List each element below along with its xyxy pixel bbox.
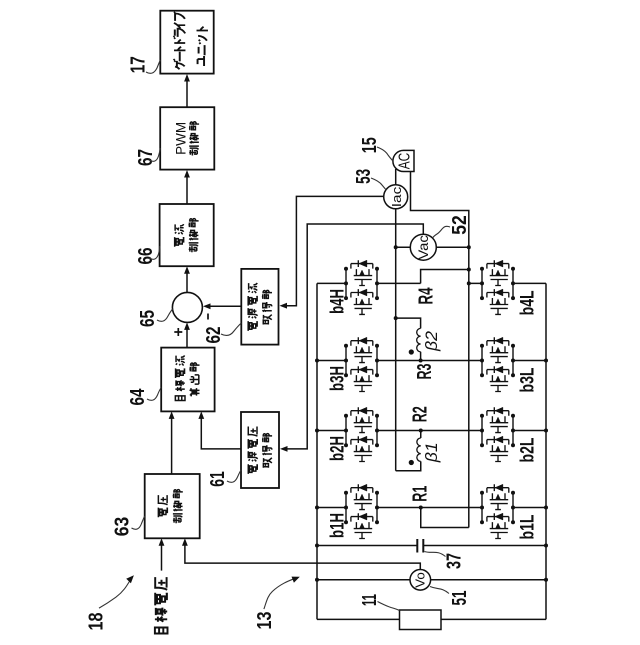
svg-text:13: 13 xyxy=(254,612,276,630)
svg-text:65: 65 xyxy=(137,310,159,327)
svg-text:b2H: b2H xyxy=(328,436,349,461)
svg-text:17: 17 xyxy=(127,56,149,73)
svg-text:Vo: Vo xyxy=(413,572,427,588)
svg-text:11: 11 xyxy=(359,594,381,606)
svg-text:b1H: b1H xyxy=(328,513,349,538)
svg-text:66: 66 xyxy=(135,248,157,265)
svg-text:64: 64 xyxy=(127,388,149,406)
svg-text:Iac: Iac xyxy=(389,186,404,207)
svg-text:61: 61 xyxy=(207,471,229,487)
svg-text:R2: R2 xyxy=(410,406,432,422)
svg-text:b1L: b1L xyxy=(518,514,539,539)
svg-text:β2: β2 xyxy=(422,330,441,352)
svg-text:18: 18 xyxy=(86,613,108,631)
svg-text:b4L: b4L xyxy=(518,290,539,315)
svg-text:52: 52 xyxy=(449,215,471,235)
svg-text:b4H: b4H xyxy=(328,289,349,314)
svg-text:PWM: PWM xyxy=(174,122,189,155)
svg-text:15: 15 xyxy=(359,137,381,153)
svg-text:b2L: b2L xyxy=(518,437,539,462)
svg-text:AC: AC xyxy=(397,153,414,170)
svg-text:51: 51 xyxy=(449,591,471,606)
svg-text:R4: R4 xyxy=(416,287,438,305)
svg-text:37: 37 xyxy=(444,553,466,569)
svg-text:b3H: b3H xyxy=(328,366,349,391)
svg-text:Vac: Vac xyxy=(416,235,431,260)
svg-text:67: 67 xyxy=(135,149,157,166)
svg-text:63: 63 xyxy=(112,517,134,537)
svg-text:β1: β1 xyxy=(422,442,441,463)
svg-text:R3: R3 xyxy=(414,364,436,380)
svg-text:53: 53 xyxy=(353,169,375,184)
svg-text:b3L: b3L xyxy=(518,367,539,392)
svg-text:R1: R1 xyxy=(410,486,432,502)
